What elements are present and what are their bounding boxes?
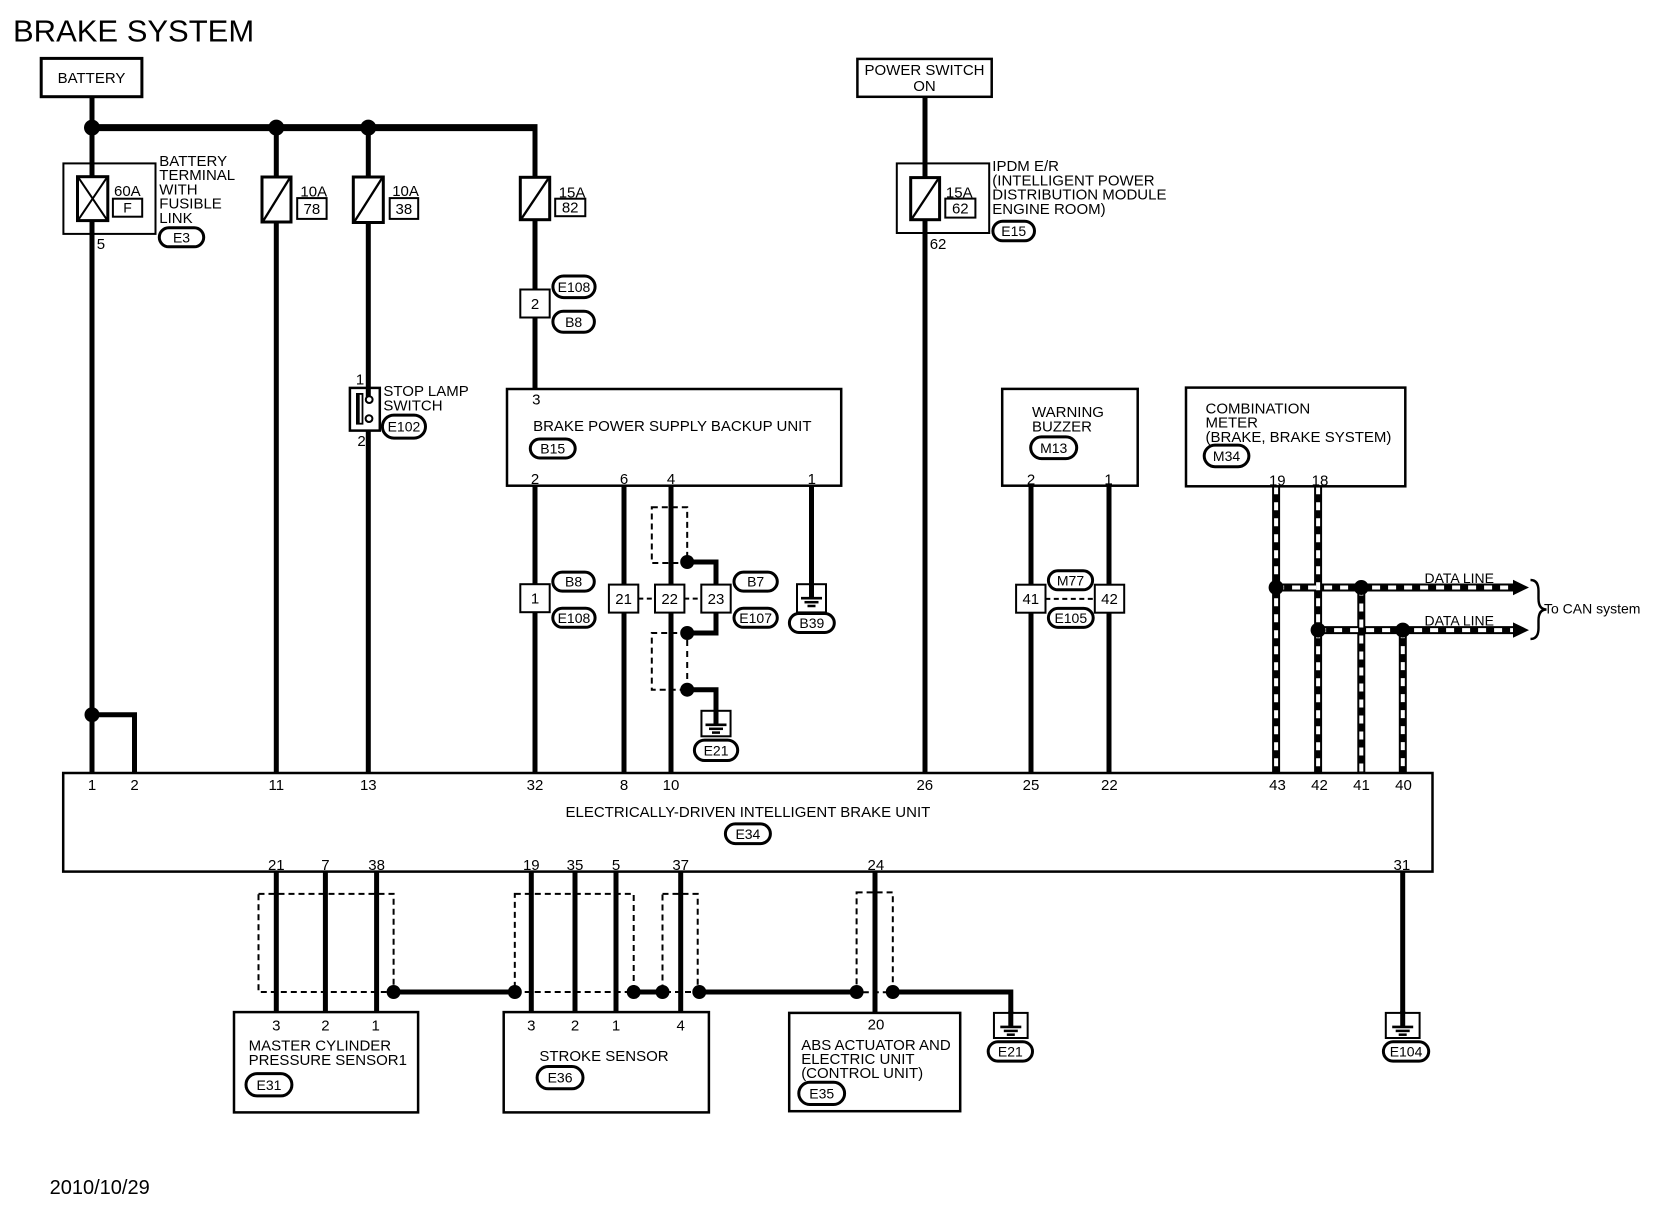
svg-text:2: 2 [1027,472,1035,489]
svg-text:31: 31 [1394,857,1411,874]
svg-text:STROKE SENSOR: STROKE SENSOR [539,1048,668,1065]
svg-text:8: 8 [620,777,628,794]
svg-text:F: F [123,200,132,216]
svg-text:78: 78 [304,201,321,218]
svg-text:1: 1 [88,777,96,794]
svg-text:42: 42 [1311,777,1328,794]
svg-text:E35: E35 [809,1085,834,1101]
svg-text:E107: E107 [739,610,772,626]
svg-text:SWITCH: SWITCH [383,397,442,414]
svg-text:22: 22 [1101,777,1118,794]
svg-text:41: 41 [1022,591,1039,608]
svg-text:PRESSURE SENSOR1: PRESSURE SENSOR1 [249,1052,407,1069]
svg-text:11: 11 [269,777,285,794]
svg-text:M34: M34 [1213,448,1240,464]
svg-text:82: 82 [562,200,579,217]
svg-text:42: 42 [1101,591,1118,608]
svg-text:B15: B15 [540,441,565,457]
svg-text:1: 1 [356,371,364,388]
svg-text:1: 1 [1104,472,1112,489]
svg-text:24: 24 [868,857,885,874]
svg-text:BRAKE POWER SUPPLY BACKUP UNIT: BRAKE POWER SUPPLY BACKUP UNIT [533,418,811,435]
svg-text:7: 7 [321,857,329,874]
svg-text:2: 2 [571,1017,579,1034]
svg-text:40: 40 [1395,777,1412,794]
svg-text:10: 10 [663,777,680,794]
svg-text:1: 1 [531,591,539,608]
svg-text:2: 2 [130,777,138,794]
svg-text:19: 19 [1269,472,1286,489]
svg-text:20: 20 [868,1017,885,1034]
svg-text:3: 3 [272,1017,280,1034]
svg-text:2: 2 [357,433,365,450]
svg-text:2010/10/29: 2010/10/29 [50,1177,150,1199]
svg-text:41: 41 [1353,777,1370,794]
svg-text:E102: E102 [388,419,421,435]
svg-text:ON: ON [913,78,936,95]
svg-text:E34: E34 [735,826,760,842]
svg-text:ENGINE ROOM): ENGINE ROOM) [992,201,1105,218]
svg-text:LINK: LINK [159,210,192,227]
svg-text:32: 32 [527,777,544,794]
svg-text:3: 3 [532,391,540,408]
svg-text:60A: 60A [114,183,141,200]
svg-text:E105: E105 [1054,610,1087,626]
svg-text:43: 43 [1269,777,1286,794]
svg-text:38: 38 [396,201,413,218]
svg-text:BATTERY: BATTERY [58,70,126,87]
svg-text:E31: E31 [256,1077,281,1093]
svg-text:M13: M13 [1040,440,1067,456]
svg-text:E108: E108 [558,610,591,626]
svg-text:5: 5 [97,236,105,253]
svg-text:E15: E15 [1001,223,1026,239]
svg-text:2: 2 [531,471,539,488]
svg-text:4: 4 [667,471,675,488]
svg-text:6: 6 [620,471,628,488]
svg-text:35: 35 [567,857,584,874]
svg-text:19: 19 [523,857,540,874]
svg-text:37: 37 [672,857,689,874]
svg-text:BUZZER: BUZZER [1032,419,1092,436]
svg-text:23: 23 [708,591,725,608]
svg-text:13: 13 [360,777,377,794]
svg-text:1: 1 [372,1017,380,1034]
svg-text:26: 26 [916,777,933,794]
svg-text:E108: E108 [558,279,591,295]
svg-text:E36: E36 [548,1070,573,1086]
svg-text:B8: B8 [565,574,582,590]
svg-text:BRAKE SYSTEM: BRAKE SYSTEM [13,14,254,49]
svg-text:62: 62 [952,200,969,217]
svg-text:POWER SWITCH: POWER SWITCH [865,62,985,79]
svg-text:18: 18 [1312,472,1329,489]
svg-text:DATA LINE: DATA LINE [1425,570,1495,586]
svg-text:2: 2 [531,296,539,313]
svg-text:25: 25 [1023,777,1040,794]
svg-text:2: 2 [321,1017,329,1034]
svg-text:ELECTRICALLY-DRIVEN INTELLIGEN: ELECTRICALLY-DRIVEN INTELLIGENT BRAKE UN… [565,804,930,821]
svg-text:3: 3 [527,1017,535,1034]
svg-text:4: 4 [677,1017,685,1034]
svg-text:21: 21 [268,857,285,874]
svg-text:21: 21 [615,591,632,608]
svg-text:5: 5 [612,857,620,874]
svg-text:B8: B8 [565,314,582,330]
svg-text:(BRAKE, BRAKE SYSTEM): (BRAKE, BRAKE SYSTEM) [1206,429,1392,446]
svg-text:(CONTROL UNIT): (CONTROL UNIT) [801,1065,923,1082]
svg-text:B7: B7 [747,574,764,590]
svg-text:To CAN system: To CAN system [1544,601,1640,617]
svg-text:E3: E3 [173,229,190,245]
svg-text:22: 22 [661,591,678,608]
svg-text:E21: E21 [704,742,729,758]
svg-text:E104: E104 [1390,1043,1423,1059]
svg-text:1: 1 [808,471,816,488]
svg-text:M77: M77 [1057,572,1084,588]
svg-text:1: 1 [612,1017,620,1034]
svg-text:38: 38 [368,857,385,874]
svg-text:62: 62 [930,236,947,253]
svg-text:DATA LINE: DATA LINE [1425,613,1495,629]
svg-text:B39: B39 [799,615,824,631]
svg-text:E21: E21 [998,1043,1023,1059]
